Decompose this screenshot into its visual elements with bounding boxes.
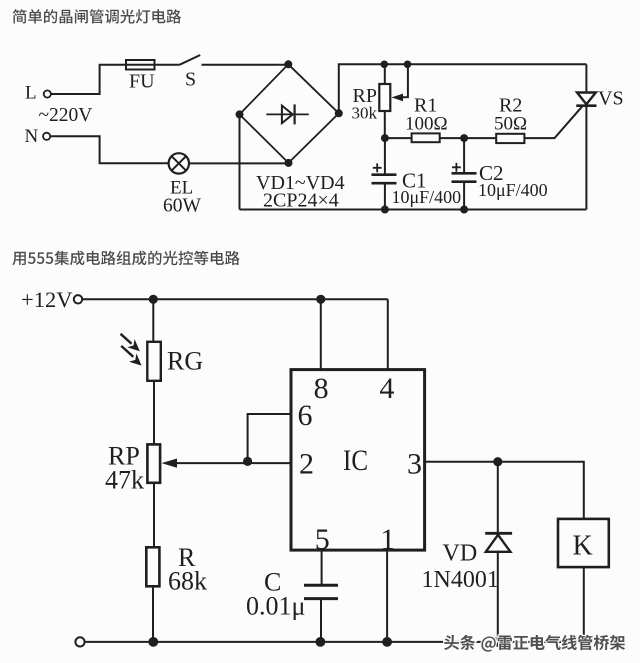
svg-text:68k: 68k bbox=[168, 567, 207, 596]
svg-text:8: 8 bbox=[314, 372, 329, 405]
node VD bottom bbox=[493, 637, 503, 647]
RP wiper arrow bbox=[392, 64, 408, 101]
svg-text:60W: 60W bbox=[163, 195, 202, 216]
wire K bottom bbox=[583, 567, 585, 642]
node wiper top bbox=[404, 61, 412, 69]
wire to R1 bbox=[385, 137, 412, 139]
right rail top bbox=[585, 64, 587, 91]
node pin6/pin2 junction bbox=[243, 457, 252, 466]
svg-text:3: 3 bbox=[407, 447, 422, 480]
node C bottom bbox=[316, 637, 326, 647]
capacitor C1 bbox=[372, 138, 397, 209]
terminal +12V bbox=[74, 295, 82, 303]
svg-text:L: L bbox=[25, 82, 37, 103]
node RP bottom junction bbox=[381, 134, 389, 142]
svg-text:30k: 30k bbox=[352, 104, 378, 123]
bottom rail circuit2 bbox=[85, 641, 584, 643]
capacitor C2 bbox=[452, 138, 477, 209]
svg-text:IC: IC bbox=[343, 444, 368, 477]
IC 555 bbox=[291, 370, 425, 550]
svg-text:2CP24×4: 2CP24×4 bbox=[263, 190, 339, 212]
wire pin4 from rail bbox=[387, 299, 389, 369]
resistor R1 bbox=[412, 133, 440, 142]
svg-text:2: 2 bbox=[299, 447, 314, 480]
node bridge right bbox=[335, 109, 343, 117]
pin5 wire bbox=[321, 550, 323, 584]
svg-text:RG: RG bbox=[167, 347, 203, 376]
svg-text:S: S bbox=[185, 69, 196, 91]
RP wiper arrow to pin2 bbox=[162, 459, 291, 468]
svg-text:47k: 47k bbox=[105, 466, 144, 495]
potentiometer RP 30k bbox=[379, 64, 390, 138]
capacitor C 0.01u bbox=[304, 585, 338, 642]
node pin8 top bbox=[316, 295, 325, 304]
potentiometer RP 47k bbox=[147, 444, 160, 547]
svg-text:FU: FU bbox=[129, 71, 155, 93]
resistor R 68k bbox=[146, 547, 159, 642]
wire R2 to thyristor gate bbox=[524, 106, 582, 138]
title: 用555集成电路组成的光控等电路 bbox=[12, 251, 239, 266]
svg-text:1N4001: 1N4001 bbox=[422, 567, 499, 593]
wire N to lamp bbox=[50, 136, 169, 163]
node bridge top bbox=[284, 60, 292, 68]
fuse FU bbox=[126, 60, 155, 70]
wire bridge left down to bottom rail bbox=[239, 114, 241, 209]
svg-text:4: 4 bbox=[379, 372, 394, 405]
svg-text:6: 6 bbox=[298, 399, 313, 432]
svg-text:50Ω: 50Ω bbox=[494, 114, 527, 135]
node C1 bottom bbox=[381, 206, 389, 214]
C2 plus sign bbox=[452, 163, 461, 172]
svg-text:0.01μ: 0.01μ bbox=[246, 592, 305, 621]
svg-text:10μF/400: 10μF/400 bbox=[478, 180, 548, 200]
right rail bottom bbox=[585, 106, 587, 210]
node RP top bbox=[381, 61, 389, 69]
wire lamp to bridge bottom bbox=[189, 162, 289, 164]
wire R1 to R2 bbox=[440, 137, 497, 139]
title: 简单的晶闸管调光灯电路 bbox=[13, 9, 182, 23]
node C2 bottom bbox=[460, 206, 468, 214]
lamp EL bbox=[169, 153, 189, 173]
ground terminal circuit2 bbox=[75, 637, 84, 646]
switch S bbox=[180, 55, 201, 65]
terminal L bbox=[44, 90, 51, 97]
svg-text:+12V: +12V bbox=[21, 287, 72, 312]
pin3 wire bbox=[425, 462, 584, 519]
svg-text:~220V: ~220V bbox=[39, 105, 93, 126]
wire fuse to switch bbox=[155, 64, 180, 66]
diode VD 1N4001 bbox=[485, 462, 512, 642]
node bridge left bbox=[236, 110, 244, 118]
node pin1 bottom bbox=[382, 637, 392, 647]
wire L to fuse bbox=[51, 65, 126, 94]
node bridge bottom bbox=[285, 159, 293, 167]
relay K bbox=[558, 519, 609, 567]
node VD top bbox=[493, 457, 502, 466]
svg-text:100Ω: 100Ω bbox=[405, 114, 448, 135]
top rail circuit2 bbox=[82, 298, 387, 300]
thyristor VS bbox=[576, 93, 596, 106]
wire pin8 from rail bbox=[320, 299, 322, 369]
photoresistor RG bbox=[147, 299, 161, 444]
RG light arrows bbox=[121, 334, 142, 366]
pin6 wire bbox=[248, 414, 291, 461]
C1 plus sign bbox=[373, 163, 382, 172]
terminal N bbox=[43, 133, 50, 140]
svg-text:K: K bbox=[573, 531, 593, 562]
svg-text:10μF/400: 10μF/400 bbox=[392, 187, 462, 207]
svg-text:VS: VS bbox=[598, 88, 624, 110]
node C2 top bbox=[460, 134, 468, 142]
svg-text:VD: VD bbox=[443, 541, 478, 567]
watermark 头条@雷正电气线管桥架 bbox=[444, 635, 625, 652]
svg-text:N: N bbox=[25, 126, 39, 147]
wire switch to bridge top bbox=[202, 64, 289, 66]
node R bottom bbox=[148, 637, 158, 647]
pin1 wire bbox=[386, 550, 388, 642]
bottom rail circuit1 bbox=[240, 209, 587, 211]
node RG top bbox=[149, 295, 158, 304]
resistor R2 bbox=[496, 134, 524, 143]
bridge rectifier VD1-VD4 bbox=[240, 64, 339, 163]
wire bridge right up and DC+ rail bbox=[339, 64, 587, 113]
